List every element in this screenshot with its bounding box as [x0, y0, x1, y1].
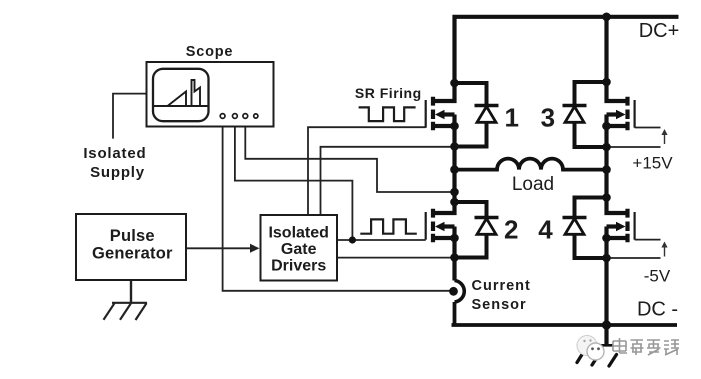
svg-text:DC+: DC+ — [639, 20, 680, 42]
svg-text:Isolated: Isolated — [83, 145, 146, 162]
svg-text:Current: Current — [472, 278, 531, 294]
svg-text:2: 2 — [504, 214, 518, 244]
svg-text:Generator: Generator — [92, 245, 173, 263]
svg-text:+15V: +15V — [632, 154, 673, 173]
svg-text:Gate: Gate — [281, 241, 317, 258]
svg-text:Scope: Scope — [186, 44, 234, 60]
svg-text:Sensor: Sensor — [472, 297, 527, 313]
svg-text:4: 4 — [538, 214, 553, 244]
svg-text:Pulse: Pulse — [110, 227, 155, 245]
svg-text:3: 3 — [541, 102, 555, 132]
svg-text:SR Firing: SR Firing — [355, 85, 422, 101]
svg-text:DC -: DC - — [637, 299, 678, 321]
svg-text:Supply: Supply — [90, 164, 145, 181]
svg-text:Load: Load — [512, 174, 554, 195]
svg-text:Isolated: Isolated — [268, 225, 328, 242]
svg-text:-5V: -5V — [644, 266, 671, 285]
svg-text:1: 1 — [504, 102, 518, 132]
svg-text:Drivers: Drivers — [271, 258, 326, 275]
